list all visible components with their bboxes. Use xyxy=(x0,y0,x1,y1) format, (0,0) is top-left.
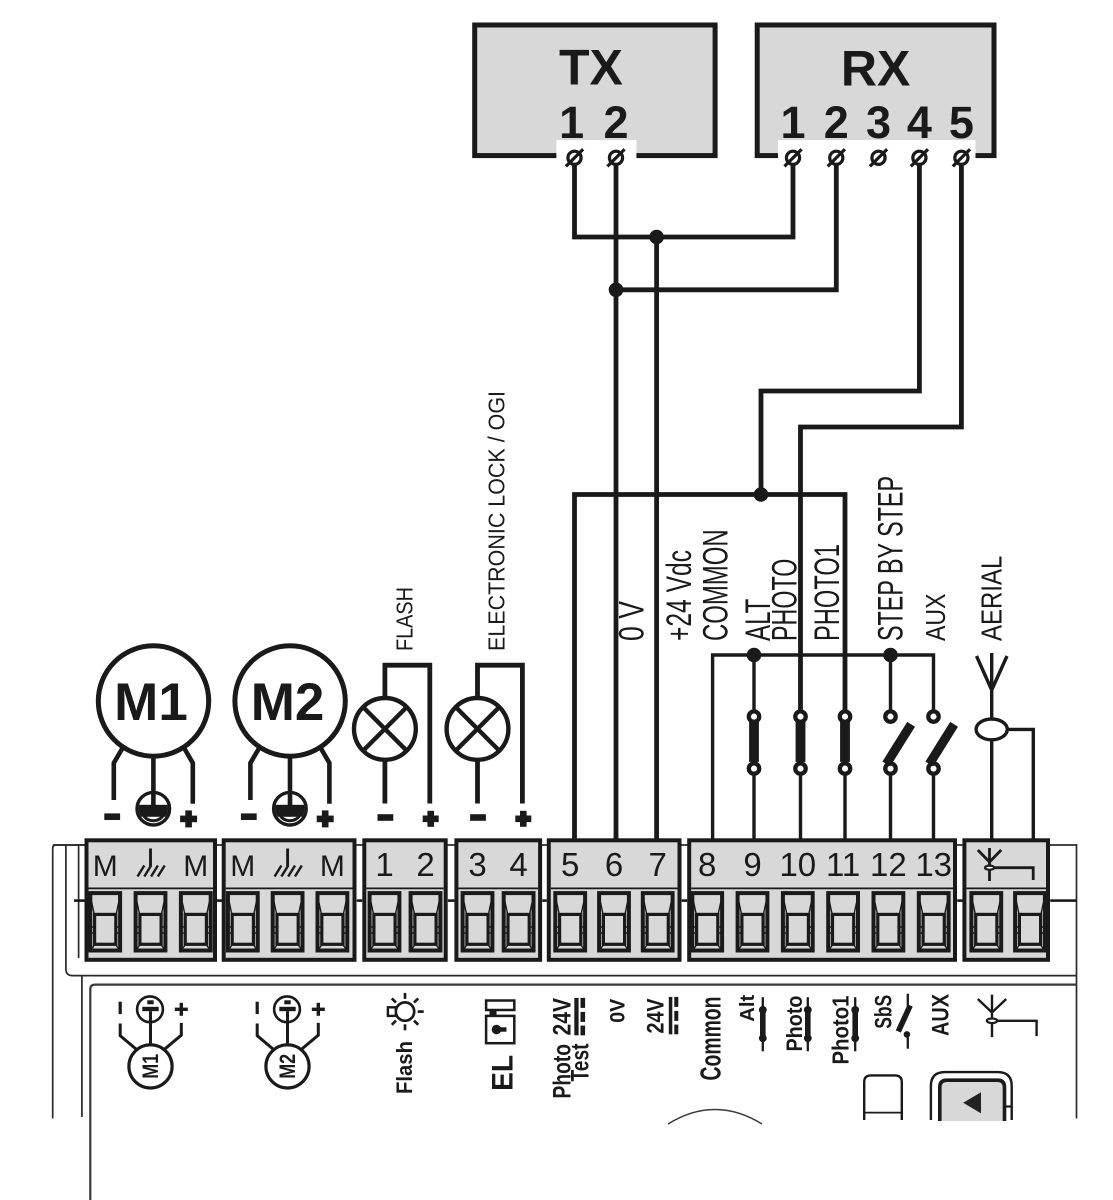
svg-text:Common: Common xyxy=(696,997,728,1081)
svg-text:Photo1: Photo1 xyxy=(828,995,854,1064)
svg-text:5: 5 xyxy=(949,97,974,148)
svg-text:3: 3 xyxy=(866,97,891,148)
svg-text:9: 9 xyxy=(743,846,761,883)
svg-text:24V: 24V xyxy=(548,998,576,1036)
svg-text:PHOTO: PHOTO xyxy=(766,559,805,641)
svg-text:SbS: SbS xyxy=(871,995,898,1029)
svg-text:M: M xyxy=(183,850,208,883)
svg-text:0 V: 0 V xyxy=(613,601,652,641)
svg-text:M2: M2 xyxy=(251,673,325,732)
svg-text:1: 1 xyxy=(375,846,393,883)
svg-text:6: 6 xyxy=(605,846,623,883)
svg-text:M2: M2 xyxy=(275,1054,300,1079)
svg-text:2: 2 xyxy=(603,97,628,148)
svg-text:Test: Test xyxy=(567,1043,595,1082)
svg-text:11: 11 xyxy=(826,846,860,883)
svg-text:M1: M1 xyxy=(138,1054,163,1079)
svg-text:2: 2 xyxy=(416,846,434,883)
svg-text:7: 7 xyxy=(649,846,667,883)
svg-text:1: 1 xyxy=(780,97,805,148)
svg-text:13: 13 xyxy=(915,846,952,883)
svg-text:12: 12 xyxy=(870,846,907,883)
svg-text:TX: TX xyxy=(559,40,623,96)
svg-text:AUX: AUX xyxy=(920,594,951,642)
svg-text:4: 4 xyxy=(509,846,527,883)
svg-text:M: M xyxy=(93,850,118,883)
svg-text:Alt: Alt xyxy=(736,995,759,1022)
svg-text:RX: RX xyxy=(841,41,910,97)
svg-text:STEP BY STEP: STEP BY STEP xyxy=(872,476,911,641)
svg-text:10: 10 xyxy=(779,846,816,883)
svg-text:0V: 0V xyxy=(607,999,630,1023)
svg-text:24V: 24V xyxy=(643,999,670,1034)
svg-text:PHOTO1: PHOTO1 xyxy=(808,544,847,641)
svg-text:AERIAL: AERIAL xyxy=(976,556,1008,641)
svg-text:+24 Vdc: +24 Vdc xyxy=(660,550,699,641)
svg-text:5: 5 xyxy=(561,846,579,883)
svg-text:M: M xyxy=(230,850,255,883)
svg-text:Photo: Photo xyxy=(782,996,807,1052)
svg-text:ELECTRONIC LOCK / OGI: ELECTRONIC LOCK / OGI xyxy=(484,391,510,651)
svg-text:Flash: Flash xyxy=(392,1041,417,1094)
svg-text:COMMON: COMMON xyxy=(696,529,735,641)
svg-text:M1: M1 xyxy=(114,673,188,732)
svg-text:AUX: AUX xyxy=(927,994,954,1036)
svg-text:2: 2 xyxy=(824,97,849,148)
svg-text:3: 3 xyxy=(468,846,486,883)
svg-text:EL: EL xyxy=(487,1055,520,1091)
svg-text:M: M xyxy=(320,850,345,883)
svg-text:4: 4 xyxy=(907,97,932,148)
svg-text:8: 8 xyxy=(698,846,716,883)
svg-text:FLASH: FLASH xyxy=(392,587,418,651)
svg-text:1: 1 xyxy=(559,97,584,148)
